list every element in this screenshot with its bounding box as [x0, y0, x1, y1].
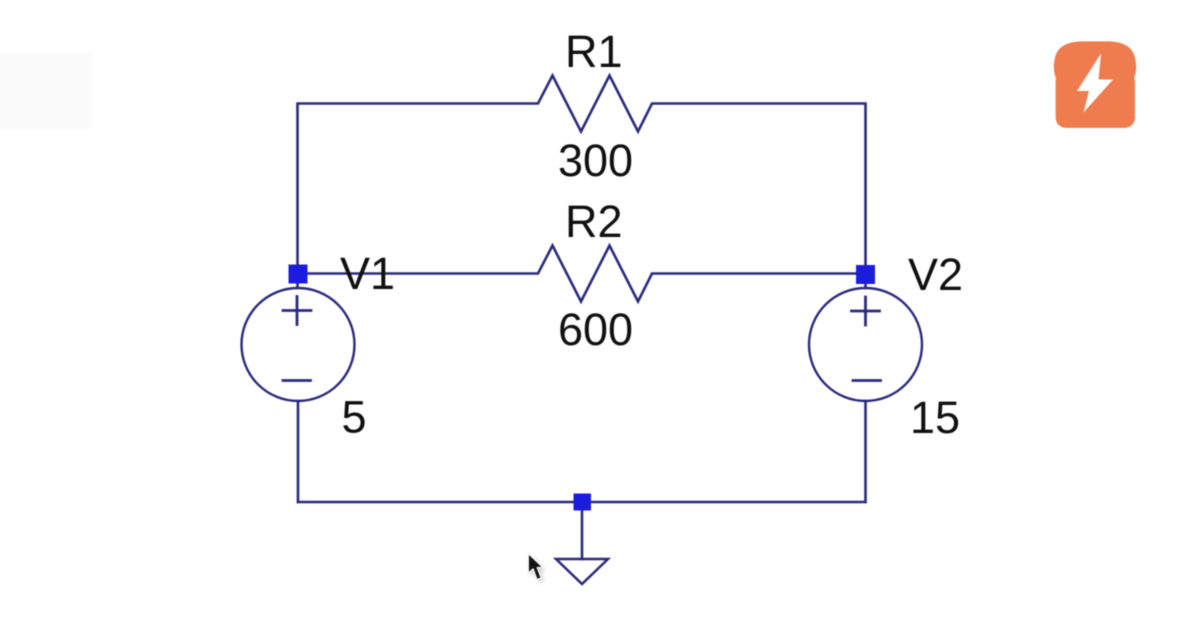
svg-text:R1: R1	[565, 26, 623, 77]
svg-text:5: 5	[342, 392, 367, 443]
svg-text:V2: V2	[908, 249, 963, 300]
svg-text:15: 15	[910, 392, 960, 443]
svg-text:V1: V1	[340, 248, 395, 299]
svg-text:R2: R2	[565, 196, 623, 247]
svg-text:600: 600	[558, 304, 633, 355]
svg-text:300: 300	[558, 135, 633, 186]
